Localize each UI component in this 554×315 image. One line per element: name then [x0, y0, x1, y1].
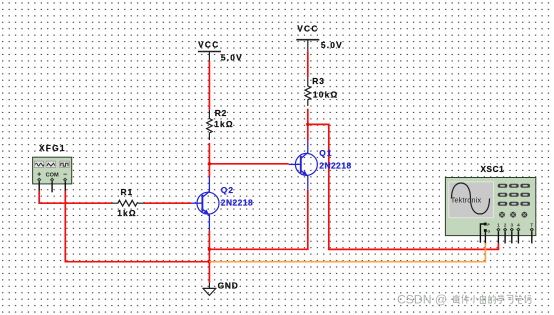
svg-text:4: 4	[517, 222, 520, 227]
transistor Q1 2N2218	[289, 141, 352, 190]
wire VCC to R3	[307, 51, 309, 77]
svg-text:R2: R2	[215, 108, 228, 118]
wire R1 to Q2 base	[144, 202, 191, 204]
svg-text:CSDN @: CSDN @	[397, 293, 447, 307]
wire XFG1 plus to R1	[39, 191, 111, 204]
svg-text:VCC: VCC	[297, 23, 318, 33]
svg-text:10kΩ: 10kΩ	[313, 90, 339, 100]
svg-text:R3: R3	[312, 76, 325, 86]
transistor Q2 2N2218	[191, 177, 253, 231]
svg-text:XSC1: XSC1	[481, 165, 505, 174]
ground	[203, 281, 239, 296]
oscilloscope XSC1	[445, 165, 535, 243]
svg-text:1: 1	[497, 222, 500, 227]
svg-text:+: +	[37, 172, 41, 179]
wire R3 to Q1 collector	[307, 109, 309, 141]
power VCC (right)	[296, 23, 343, 51]
svg-text:T: T	[530, 222, 533, 227]
svg-text:R1: R1	[121, 187, 134, 197]
wire Q1 emitter to ground rail	[209, 190, 307, 250]
wire Q2 emitter to ground rail	[208, 231, 210, 283]
junction XFG1 minus / scope ground on rail	[208, 260, 211, 263]
junction Q1 emitter return on ground rail	[208, 248, 211, 251]
wire VCC to R2	[208, 61, 210, 110]
resistor R1 1kOhm	[111, 187, 145, 218]
wire R2 to Q2 collector	[208, 143, 210, 177]
wire oscilloscope ground to ground rail (orange)	[209, 243, 485, 262]
svg-text:5.0V: 5.0V	[221, 52, 243, 62]
svg-text:1kΩ: 1kΩ	[117, 208, 137, 218]
svg-text:Tektronix: Tektronix	[451, 196, 482, 205]
resistor R3 10kOhm	[305, 76, 338, 106]
svg-text:XFG1: XFG1	[39, 143, 66, 153]
svg-text:−: −	[63, 171, 67, 178]
wire node to Q1 base	[209, 163, 288, 165]
junction at R2/Q2 collector node	[208, 162, 211, 165]
function generator XFG1	[33, 143, 72, 193]
power VCC (left)	[198, 39, 243, 62]
svg-text:2N2218: 2N2218	[319, 160, 351, 170]
svg-text:GND: GND	[218, 281, 239, 291]
wire collector node to oscilloscope channel 1	[308, 124, 499, 249]
svg-text:3: 3	[511, 222, 514, 227]
junction R3 / scope feed node	[306, 123, 309, 126]
watermark CSDN	[397, 293, 531, 307]
svg-text:Q2: Q2	[221, 185, 234, 195]
wire XFG1 minus to ground rail	[65, 191, 209, 262]
svg-text:G: G	[487, 229, 490, 233]
svg-text:Q1: Q1	[319, 148, 332, 158]
svg-text:COM: COM	[46, 172, 59, 178]
svg-text:2: 2	[504, 222, 507, 227]
svg-text:1kΩ: 1kΩ	[214, 119, 234, 129]
resistor R2 1kOhm	[207, 108, 234, 140]
svg-text:VCC: VCC	[198, 39, 219, 49]
svg-text:2N2218: 2N2218	[221, 197, 253, 207]
svg-text:5.0V: 5.0V	[321, 40, 343, 50]
